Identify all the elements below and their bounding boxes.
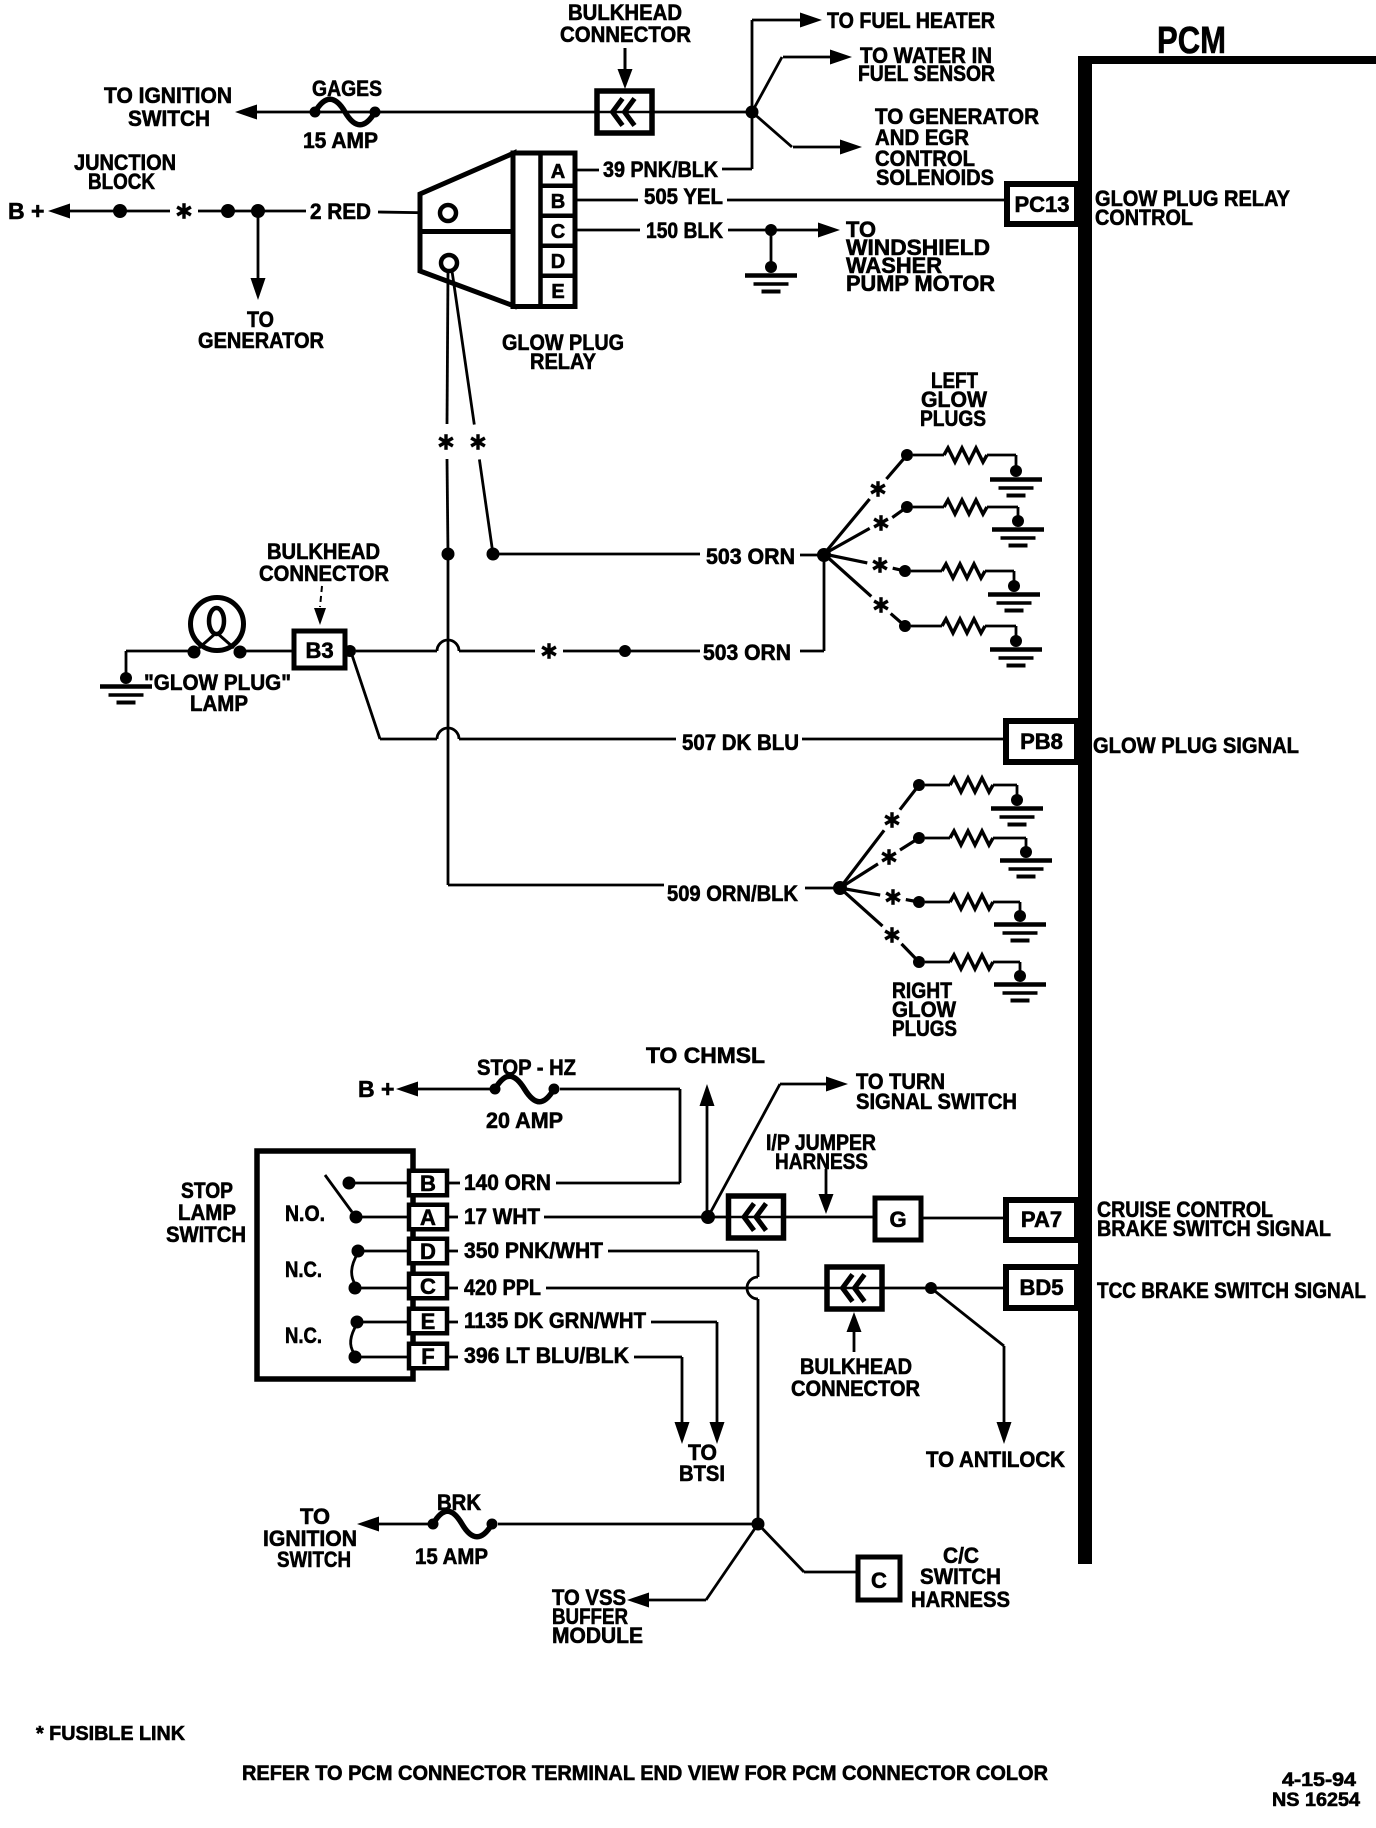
svg-text:SWITCH: SWITCH	[277, 1547, 351, 1572]
svg-text:503 ORN: 503 ORN	[706, 544, 795, 569]
svg-text:SWITCH: SWITCH	[166, 1222, 246, 1247]
svg-text:CONNECTOR: CONNECTOR	[259, 561, 389, 586]
svg-text:N.O.: N.O.	[285, 1201, 325, 1226]
svg-text:507 DK BLU: 507 DK BLU	[682, 730, 799, 755]
svg-text:* FUSIBLE LINK: * FUSIBLE LINK	[36, 1723, 186, 1745]
svg-text:20 AMP: 20 AMP	[486, 1108, 563, 1133]
svg-text:RELAY: RELAY	[530, 349, 596, 374]
svg-text:420 PPL: 420 PPL	[464, 1275, 541, 1300]
svg-text:SIGNAL SWITCH: SIGNAL SWITCH	[856, 1089, 1017, 1114]
svg-text:TO FUEL HEATER: TO FUEL HEATER	[827, 8, 995, 33]
svg-text:A: A	[420, 1205, 436, 1230]
svg-text:PCM: PCM	[1157, 20, 1226, 62]
svg-text:B: B	[420, 1171, 436, 1196]
svg-text:STOP - HZ: STOP - HZ	[477, 1055, 576, 1080]
svg-text:SOLENOIDS: SOLENOIDS	[876, 165, 994, 190]
svg-text:BRK: BRK	[437, 1490, 481, 1515]
svg-text:C: C	[551, 221, 565, 243]
svg-text:1135 DK GRN/WHT: 1135 DK GRN/WHT	[464, 1308, 647, 1333]
svg-text:G: G	[889, 1207, 906, 1232]
svg-text:F: F	[421, 1344, 434, 1369]
svg-text:HARNESS: HARNESS	[775, 1149, 868, 1174]
svg-text:PC13: PC13	[1014, 192, 1069, 217]
svg-text:396 LT BLU/BLK: 396 LT BLU/BLK	[464, 1343, 629, 1368]
svg-text:BRAKE SWITCH SIGNAL: BRAKE SWITCH SIGNAL	[1097, 1216, 1331, 1241]
svg-text:B +: B +	[358, 1076, 394, 1102]
svg-text:BTSI: BTSI	[679, 1461, 725, 1486]
svg-text:BD5: BD5	[1019, 1275, 1063, 1300]
svg-text:B3: B3	[305, 638, 333, 663]
svg-text:PUMP MOTOR: PUMP MOTOR	[846, 271, 995, 296]
svg-text:C: C	[420, 1274, 436, 1299]
svg-text:CONTROL: CONTROL	[1095, 205, 1193, 230]
svg-text:TCC BRAKE SWITCH SIGNAL: TCC BRAKE SWITCH SIGNAL	[1097, 1278, 1366, 1303]
svg-text:NS 16254: NS 16254	[1272, 1790, 1360, 1811]
svg-text:E: E	[421, 1309, 436, 1334]
svg-text:HARNESS: HARNESS	[911, 1587, 1010, 1612]
svg-text:MODULE: MODULE	[552, 1623, 643, 1648]
svg-text:B +: B +	[8, 198, 44, 224]
svg-text:15 AMP: 15 AMP	[415, 1544, 488, 1569]
svg-text:PA7: PA7	[1021, 1207, 1062, 1232]
svg-text:503 ORN: 503 ORN	[703, 640, 791, 665]
svg-text:SWITCH: SWITCH	[920, 1564, 1001, 1589]
svg-text:150 BLK: 150 BLK	[646, 218, 723, 243]
svg-text:C: C	[871, 1568, 887, 1593]
svg-text:PLUGS: PLUGS	[892, 1016, 957, 1041]
svg-text:SWITCH: SWITCH	[128, 106, 210, 131]
svg-text:4-15-94: 4-15-94	[1282, 1770, 1356, 1791]
svg-text:TO CHMSL: TO CHMSL	[646, 1043, 765, 1068]
svg-text:2 RED: 2 RED	[310, 199, 371, 224]
svg-text:TO ANTILOCK: TO ANTILOCK	[926, 1447, 1065, 1472]
svg-text:15 AMP: 15 AMP	[303, 128, 378, 153]
svg-text:509 ORN/BLK: 509 ORN/BLK	[667, 881, 798, 906]
svg-text:505 YEL: 505 YEL	[644, 184, 723, 209]
svg-text:LAMP: LAMP	[190, 691, 248, 716]
svg-text:B: B	[551, 191, 565, 213]
svg-text:350 PNK/WHT: 350 PNK/WHT	[464, 1238, 604, 1263]
svg-text:39 PNK/BLK: 39 PNK/BLK	[603, 157, 718, 182]
svg-text:N.C.: N.C.	[285, 1257, 322, 1282]
svg-text:CONNECTOR: CONNECTOR	[791, 1376, 920, 1401]
svg-text:FUEL SENSOR: FUEL SENSOR	[858, 61, 995, 86]
svg-text:GLOW PLUG SIGNAL: GLOW PLUG SIGNAL	[1093, 733, 1299, 758]
svg-text:140 ORN: 140 ORN	[464, 1170, 551, 1195]
svg-text:BLOCK: BLOCK	[88, 169, 155, 194]
svg-text:TO IGNITION: TO IGNITION	[104, 83, 232, 108]
svg-text:PLUGS: PLUGS	[920, 406, 986, 431]
svg-text:GENERATOR: GENERATOR	[198, 328, 324, 353]
svg-text:A: A	[551, 161, 565, 183]
svg-text:CONNECTOR: CONNECTOR	[560, 22, 691, 47]
svg-text:D: D	[551, 251, 565, 273]
svg-text:E: E	[551, 281, 564, 303]
svg-text:D: D	[420, 1239, 436, 1264]
svg-text:N.C.: N.C.	[285, 1323, 322, 1348]
svg-text:REFER TO PCM CONNECTOR TERMINA: REFER TO PCM CONNECTOR TERMINAL END VIEW…	[242, 1762, 1048, 1785]
svg-text:GAGES: GAGES	[312, 76, 382, 101]
svg-text:PB8: PB8	[1020, 729, 1063, 754]
svg-text:17 WHT: 17 WHT	[464, 1204, 541, 1229]
